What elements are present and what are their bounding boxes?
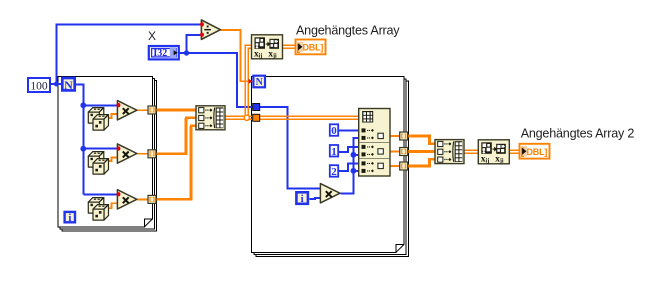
coercion dot M3 [117, 192, 121, 196]
wire: constant 2 to index-array input row 5 [339, 164, 359, 171]
dice function D2 [88, 152, 108, 175]
junction dot row1 [80, 102, 86, 108]
dice function D1 [88, 108, 108, 131]
indicator DBL1 (Angehängtes Array) [296, 40, 326, 55]
junction dot on 100/N wire [54, 82, 59, 87]
index-array node [359, 109, 390, 177]
for-loop 2 border (stacked frames) [252, 77, 409, 257]
junction (2D wire) hollow circle [244, 115, 249, 120]
wire: junction up to transpose TR1 (2D) [245, 45, 252, 117]
constant 2 [330, 165, 338, 178]
wire: tunnel T2 to build-array B1 input2 [156, 118, 186, 154]
element output squares [378, 133, 383, 168]
svg-text:i: i [301, 193, 304, 205]
wire: into B1 input3 [190, 125, 196, 128]
index input glyphs (6 rows) [362, 128, 374, 173]
svg-text:N: N [256, 77, 264, 88]
i terminal loop2 [296, 192, 308, 205]
multiply ML (loop2) [320, 184, 340, 203]
wire: loop2 tunnel out row2 to build-array B2 input2 [408, 150, 435, 153]
svg-text:DBL]: DBL] [303, 43, 324, 53]
wire: inside loop2 from blue tunnel to multiply ML top input [260, 107, 321, 188]
svg-text:I32: I32 [153, 48, 167, 59]
control X (I32) [149, 46, 179, 59]
wire: junction right, down, into loop2 blue tunnel [187, 53, 254, 107]
svg-text:1: 1 [331, 146, 337, 158]
2D array glyph [362, 111, 373, 123]
i terminal loop1 [65, 212, 75, 224]
constant 1 [330, 145, 338, 158]
multiply M2 [117, 144, 136, 163]
orange tunnel (loop2 left, 2D array input) [253, 114, 260, 121]
svg-text:Angehängtes Array 2: Angehängtes Array 2 [521, 127, 635, 141]
build-array B1 [196, 106, 225, 130]
wire: to multiply M2 top input [83, 148, 118, 150]
tunnel T3 (loop1 out) [148, 195, 156, 203]
wire: to multiply M1 top input [83, 104, 118, 106]
svg-text:0: 0 [331, 125, 337, 137]
wire: B1 output to junction to loop2 orange tunnel (2D) [225, 115, 253, 117]
wire: B2 output to transpose TR2 (2D) [464, 149, 479, 151]
transpose TR2 [478, 140, 509, 165]
svg-text:N: N [64, 78, 73, 92]
junction dot on multiply ML riser row6 [351, 168, 357, 174]
wire: into B1 input2 [185, 117, 196, 120]
svg-text:i: i [68, 212, 71, 224]
wire: transpose TR1 to indicator DBL1 (2D) [283, 44, 296, 46]
constant 0 [330, 124, 338, 137]
tunnel T1 (loop1 out) [148, 106, 156, 114]
wire: multiply ML output up with branches to index rows 2,4,6 [341, 138, 360, 193]
coercion dot loop2 N [249, 79, 253, 84]
wire: i2 terminal to multiply ML bottom input [310, 198, 321, 199]
svg-text:2: 2 [331, 166, 337, 178]
blue tunnel (loop2 left, X input) [253, 104, 260, 111]
dice function D3 [88, 198, 108, 221]
tunnel loop2 out row3 [400, 162, 408, 170]
wire: constant 0 to index-array input row 1 [339, 129, 359, 131]
wire: junction up to divide bottom input [187, 35, 202, 53]
wire: index-array out row3 to tunnel [390, 165, 400, 167]
for-loop 1 border (stacked frames) [58, 77, 157, 232]
N terminal loop2 [253, 76, 265, 88]
tunnel T2 (loop1 out) [148, 150, 156, 158]
wire: loop2 tunnel out row3 to build-array B2 input3 [408, 159, 435, 166]
multiply M3 [117, 190, 136, 209]
wire: N1 stub right and down the loop interior [76, 85, 83, 195]
tunnel loop2 out row2 [400, 148, 408, 156]
divide node [201, 20, 220, 39]
coercion dot M1 [117, 103, 121, 107]
coercion dot M2 [117, 146, 121, 150]
wire: loop2 orange tunnel to index-array 2D input [260, 115, 359, 117]
wire: loop2 tunnel out row1 to build-array B2 input1 [408, 136, 435, 144]
coercion dot divide top [200, 22, 204, 26]
wire: divide output to loop2 N terminal [221, 30, 250, 81]
build-array B2 [435, 140, 464, 164]
junction dot row2 [80, 146, 86, 152]
constant 100 [28, 78, 50, 92]
wire: M2 output to tunnel T2 [138, 153, 149, 155]
multiply M1 [117, 101, 136, 120]
wire: tunnel T1 to build-array B1 input1 [156, 109, 196, 112]
svg-text:Angehängtes Array: Angehängtes Array [296, 23, 400, 37]
wire: index-array out row2 to tunnel [390, 151, 400, 153]
wire: index-array out row1 to tunnel [390, 135, 400, 137]
wire: tunnel T3 to build-array B1 input3 [156, 126, 191, 200]
wire: constant 1 to index-array input row 3 [339, 147, 359, 152]
coercion dot divide bottom [200, 33, 204, 37]
for-loop 2 corner fold [396, 245, 404, 253]
junction dot at I32 output [184, 50, 189, 55]
for-loop 1 corner fold [144, 219, 152, 227]
wire: to multiply M3 top input [83, 193, 118, 195]
junction dot on multiply ML riser row4 [351, 152, 357, 158]
wire: transpose TR2 to indicator DBL2 (2D) [509, 149, 520, 151]
wire: I32 control X output to junction [180, 52, 187, 54]
N terminal loop1 [62, 78, 74, 92]
wire: dice D3 to M3 bottom input [107, 203, 118, 208]
svg-text:X: X [148, 29, 156, 43]
wire: dice D2 to M2 bottom input [107, 157, 118, 161]
wire: constant 100 to N terminal [51, 83, 62, 85]
wire: dice D1 to M1 bottom input [107, 114, 118, 118]
indicator DBL2 (Angehängtes Array 2) [520, 144, 550, 159]
wire: branch up from 100/N junction to divide top input [56, 25, 201, 85]
transpose TR1 [252, 35, 283, 60]
wire: M1 output to tunnel T1 [138, 109, 149, 111]
svg-text:100: 100 [30, 80, 48, 92]
wire: M3 output to tunnel T3 [138, 198, 149, 200]
tunnel loop2 out row1 [400, 132, 408, 140]
